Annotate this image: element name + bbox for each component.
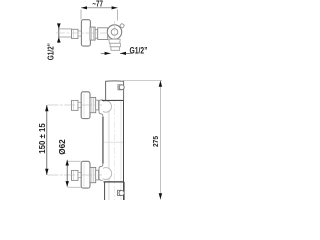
- 275 dimension line: [159, 81, 161, 200]
- shaft between nut and flange (top view): [78, 31, 82, 36]
- lower flange inner highlight: [83, 163, 85, 187]
- upper shaft: [78, 102, 82, 107]
- 275 bottom arrow: [159, 193, 162, 199]
- union nut facet line (top view): [91, 27, 93, 40]
- upper wall flange: [81, 92, 90, 119]
- lower inlet centerline: [48, 174, 103, 176]
- G1/2 diameter top arrow: [57, 23, 61, 29]
- dimension ~77 line: [81, 7, 118, 9]
- dimension ~77 left arrow: [81, 6, 87, 9]
- lower hex nut facet: [73, 170, 75, 180]
- bottom cap joint line: [104, 181, 125, 183]
- upper hex nut: [72, 100, 79, 110]
- valve cartridge inner circle (top view): [111, 29, 118, 36]
- upper hex nut facet: [73, 100, 75, 110]
- cap safety button square: [118, 85, 121, 90]
- 275 top extension line: [123, 80, 162, 82]
- bar top cap: [106, 81, 124, 101]
- bar left edge between bosses: [102, 117, 104, 164]
- bar body vertical centerline: [114, 82, 116, 200]
- bottom safety button circle: [119, 190, 124, 195]
- lower union nut facets: [91, 167, 93, 182]
- bar body highlight band: [108, 101, 110, 200]
- svg-text:Ø62: Ø62: [58, 139, 67, 155]
- upper joint line (boss top): [102, 99, 124, 101]
- step ring (top view): [95, 30, 98, 39]
- handle tab (top view): [120, 23, 125, 28]
- svg-text:150 ± 15: 150 ± 15: [38, 123, 47, 154]
- dimension ~77 right arrow: [112, 6, 118, 9]
- dimension Ø62 bottom extension line: [68, 186, 81, 188]
- cap safety button circle: [119, 85, 124, 90]
- outlet G1/2 right arrow + leader: [120, 52, 132, 54]
- hex nut (top view): [72, 29, 79, 38]
- lower tee boss stub: [99, 163, 103, 180]
- lower shaft: [78, 172, 82, 177]
- 275 top arrow: [159, 81, 162, 87]
- svg-text:~77: ~77: [92, 0, 103, 9]
- lower hex nut: [72, 170, 79, 180]
- upper step ring: [96, 100, 99, 110]
- upper tee faint circle: [100, 101, 111, 112]
- bar right edge: [123, 81, 125, 200]
- inlet centerline (top view): [56, 32, 108, 34]
- lower union nut: [90, 167, 96, 182]
- union nut (top view): [90, 27, 95, 40]
- outlet neck below valve body (top view): [109, 39, 120, 43]
- bar middle joint line: [103, 141, 123, 143]
- valve body connector rect (top view): [98, 28, 108, 40]
- lower tee faint circle: [100, 168, 112, 180]
- bar body right highlight band: [120, 101, 122, 200]
- dimension ~77 left extension line: [80, 10, 82, 20]
- dimension ~77 right extension line: [117, 10, 119, 21]
- svg-text:G1/2”: G1/2”: [130, 45, 148, 56]
- outlet G1/2 left arrow + leader: [101, 52, 111, 54]
- svg-text:275: 275: [151, 136, 160, 147]
- upper flange inner highlight: [83, 94, 85, 118]
- dimension Ø62 top arrow: [66, 160, 69, 166]
- dimension Ø62 bottom arrow: [66, 181, 69, 187]
- hex nut facet line: [73, 29, 75, 38]
- svg-text:G1/2”: G1/2”: [46, 43, 56, 60]
- upper tee boss stub: [99, 100, 103, 117]
- lower step ring: [96, 170, 99, 180]
- bottom safety button square: [118, 190, 121, 195]
- upper union nut: [90, 97, 96, 112]
- bottom cap left edge: [104, 182, 106, 200]
- upper inlet centerline: [48, 104, 103, 106]
- outlet pipe end (top view): [111, 47, 120, 51]
- lower wall flange: [81, 161, 90, 188]
- valve body outer circle (top view): [107, 25, 121, 39]
- outlet collar (top view): [110, 43, 120, 47]
- dimension 150±15 line: [46, 105, 48, 175]
- upper union nut facets: [91, 97, 93, 112]
- dimension 150±15 bottom arrow: [45, 169, 48, 175]
- dimension Ø62 top extension line: [68, 160, 81, 162]
- dimension Ø62 line: [66, 160, 68, 187]
- valve vertical centerline (top view): [114, 21, 116, 50]
- union nut facet line 2 (top view): [92, 27, 94, 40]
- dimension 150±15 top arrow: [45, 105, 48, 111]
- inlet pipe stub (top view): [59, 29, 72, 37]
- G1/2 diameter bottom arrow: [57, 37, 61, 43]
- wall flange disc (top view): [81, 20, 90, 46]
- bottom cap right edge: [123, 182, 125, 200]
- G1/2 diameter dimension line at pipe end: [58, 24, 60, 44]
